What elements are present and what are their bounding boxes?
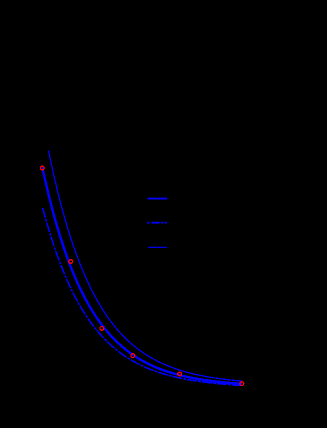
curve A (thin solid, top) [49,151,243,382]
legend line 2 dash-dot [147,222,166,224]
curve C (dash-dot, bottom) [43,208,242,385]
data marker 5 [178,372,182,376]
data marker 4 [131,354,135,358]
curve M (thick solid fit) [42,167,242,384]
legend line 1 solid thick [148,198,168,200]
data marker 2 [69,260,73,264]
data marker 1 [40,166,44,170]
data marker 6 [240,382,244,386]
legend line 3 thin solid [148,246,167,248]
data marker 3 [100,327,104,331]
